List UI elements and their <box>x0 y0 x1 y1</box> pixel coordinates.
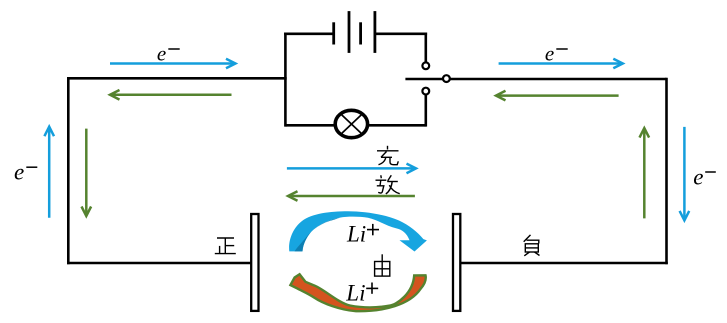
svg-text:Li: Li <box>346 222 366 247</box>
wire lamp left <box>285 124 334 127</box>
svg-text:e: e <box>157 42 166 66</box>
label charge CJK chong <box>377 146 399 165</box>
label Li+ top <box>346 222 379 247</box>
arrow blue down right-side <box>680 127 690 220</box>
arrow e- blue right top-left <box>110 59 236 69</box>
arrow blue up left-side <box>44 127 54 218</box>
electrode negative bar <box>453 214 460 311</box>
wire left branch vertical <box>284 33 287 127</box>
arrow discharge green left center <box>288 191 415 201</box>
label e- right-side <box>693 165 716 190</box>
battery plate long 2 <box>373 11 376 53</box>
label CJK you <box>375 254 390 276</box>
curved arrow Li+ green-orange bottom <box>290 274 425 311</box>
switch lever wire horizontal <box>405 78 666 81</box>
wire right vertical <box>665 78 668 265</box>
wire switch top vertical <box>424 33 427 62</box>
wire bottom-left horizontal <box>67 262 251 265</box>
label discharge CJK fang <box>376 175 400 194</box>
curved arrow Li+ blue top <box>289 211 427 251</box>
label e- top-left <box>157 42 180 66</box>
label e- top-right <box>545 42 568 66</box>
svg-text:e: e <box>14 160 24 185</box>
electrode positive bar <box>251 214 258 311</box>
lamp cross line 1 <box>340 113 363 135</box>
wire switch bottom vertical <box>424 95 427 127</box>
switch contact top circle <box>422 62 429 69</box>
battery plate short 2 <box>359 22 362 44</box>
lamp cross line 2 <box>340 113 363 135</box>
arrow charge blue right center <box>287 164 416 174</box>
wire bottom-right horizontal <box>460 262 668 265</box>
switch contact bottom circle <box>422 88 429 95</box>
arrow green up right-side <box>640 128 650 218</box>
svg-text:e: e <box>545 42 554 66</box>
svg-text:Li: Li <box>345 281 365 306</box>
wire battery right <box>375 32 427 35</box>
wire left vertical <box>67 77 70 264</box>
label Li+ bottom <box>345 281 378 306</box>
label electrode CJK fu negative <box>524 235 540 256</box>
lamp L1 circle <box>335 110 367 137</box>
label electrode CJK zheng positive <box>215 238 236 254</box>
switch pivot circle <box>443 75 450 82</box>
battery plate short 1 <box>332 22 335 44</box>
arrow green left top-left <box>110 90 232 100</box>
label e- left-side <box>14 160 37 185</box>
battery plate long 1 <box>348 11 351 53</box>
wire lamp right <box>369 124 426 127</box>
wire top-left horizontal <box>67 77 287 80</box>
wire battery left <box>284 32 334 35</box>
arrow green left top-right <box>496 91 619 101</box>
arrow e- blue right top-right <box>499 59 623 69</box>
svg-text:e: e <box>693 165 703 190</box>
arrow green down left-side <box>82 129 92 216</box>
curved arrow blue dark shade <box>295 218 341 252</box>
